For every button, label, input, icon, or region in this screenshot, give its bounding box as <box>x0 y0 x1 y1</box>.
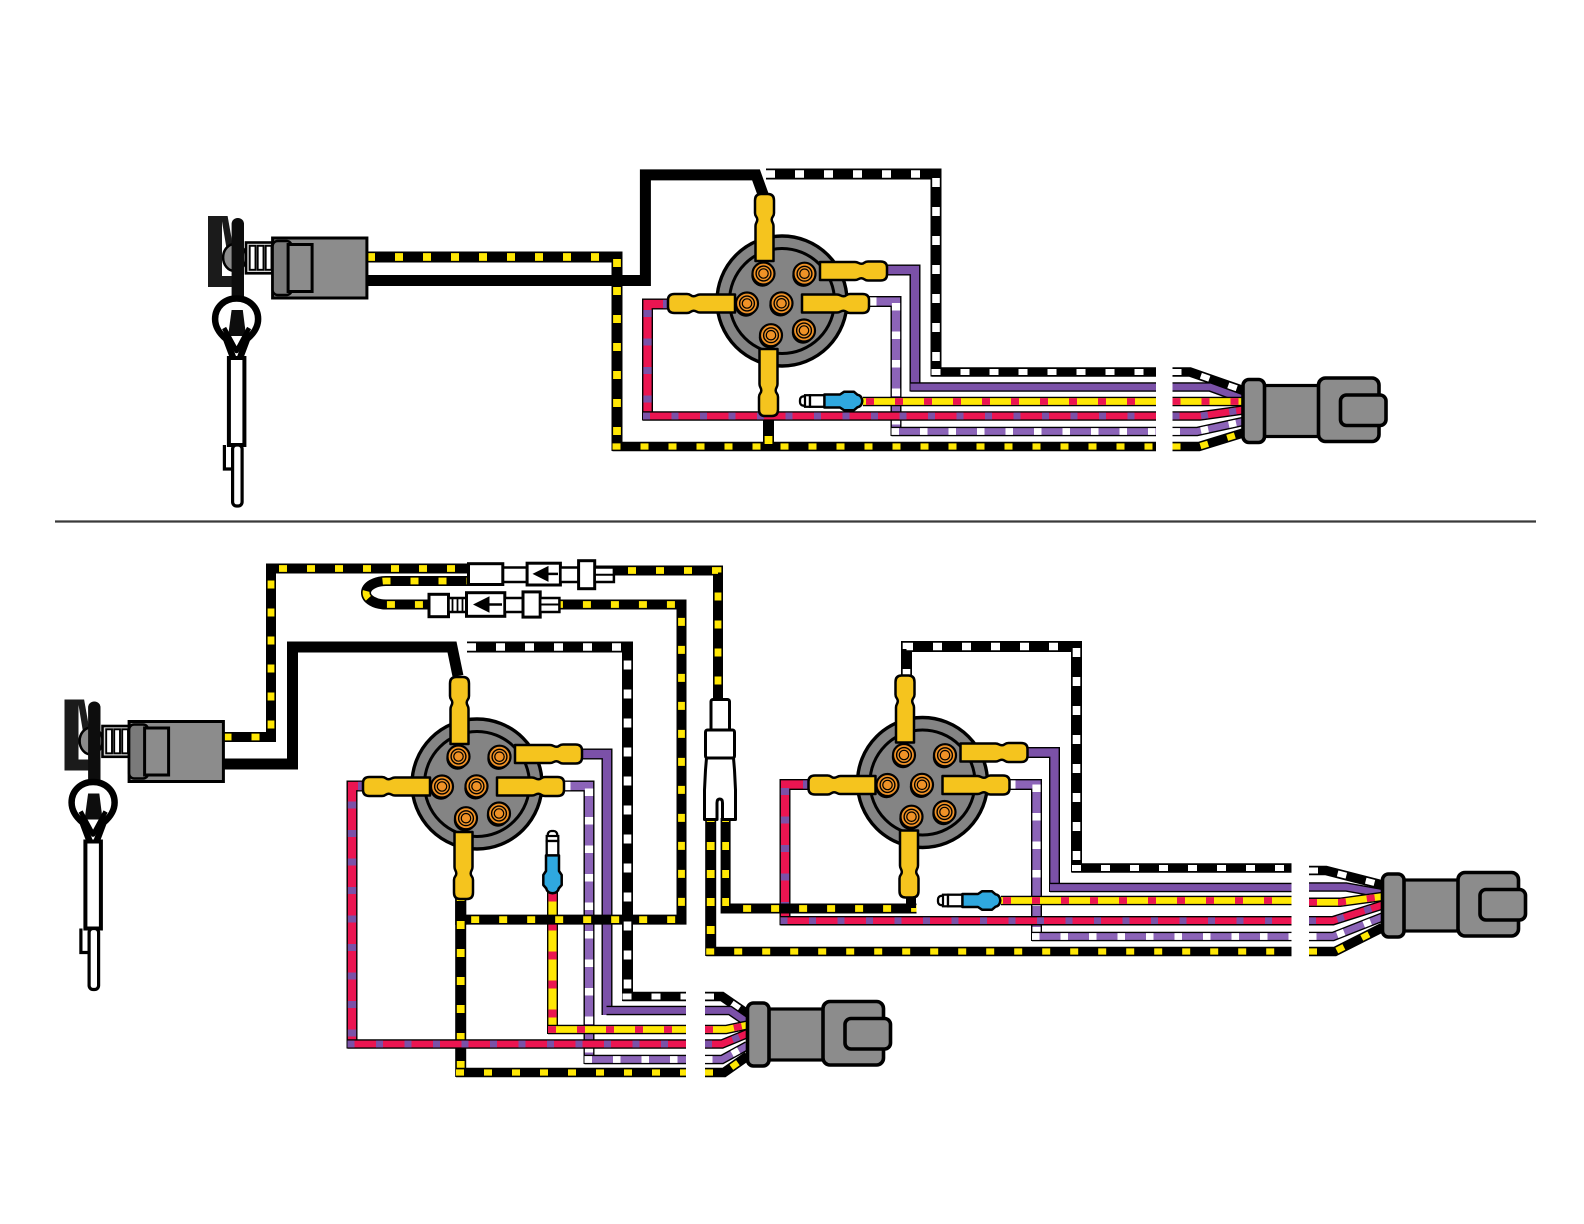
switch B center contact <box>464 775 487 799</box>
switch A top-right contact <box>792 263 815 287</box>
harness connector plug P2 (lower harness) <box>748 1002 891 1067</box>
wire: yellow/red fan into plug P1 <box>1173 397 1244 407</box>
wire: yellow/red fan into plug P3 <box>1309 897 1383 903</box>
wire: black/yellow stub, switch C bottom terminal <box>906 891 916 908</box>
wire: black/yellow from Y connector left leg <box>705 818 716 956</box>
switch A left spade terminal <box>668 294 735 313</box>
wire: purple, switch C upper-right (vertical leg) <box>1026 753 1055 893</box>
wire: black/yellow stub, switch B bottom terminal <box>455 894 466 925</box>
ribbed strain relief <box>246 243 273 274</box>
wire: red/purple fan into plug P1 <box>1173 410 1244 416</box>
wire: purple fan into plug P2 <box>705 1011 748 1023</box>
switch A upper-right spade terminal <box>820 262 887 281</box>
inline fuse F3 (switch C circuit) <box>938 891 1000 909</box>
switch B top-right contact <box>487 746 510 770</box>
inline fuse F1 (top diagram) <box>800 392 862 410</box>
bullet splice connector pair 2 <box>429 592 559 617</box>
switch B mid-left contact <box>430 776 453 800</box>
wire: red/purple row (lower harness) <box>348 1039 687 1049</box>
lanyard stop-switch key assembly (bottom diagram, key switch 2) <box>65 700 224 990</box>
wire: black/white run to lower harness <box>623 992 687 1002</box>
switch A center contact <box>769 292 792 316</box>
switch C bottom-left contact <box>899 806 922 830</box>
switch C mid-left contact <box>875 774 898 798</box>
wire: black/yellow from bullet splice 1 to Y connector <box>578 571 718 701</box>
bullet splice connector pair 1 <box>469 561 614 589</box>
wire: purple fan into plug P1 <box>1173 387 1244 399</box>
switch A bottom-right contact <box>792 320 815 344</box>
switch B left spade terminal <box>363 777 430 796</box>
switch B bottom-right contact <box>487 803 510 827</box>
Y splitter connector <box>705 700 736 820</box>
inline fuse F2 (switch B circuit, vertical) <box>543 831 561 893</box>
switch B bottom spade terminal <box>454 832 473 899</box>
wire: yellow/red row (right harness) <box>1001 896 1292 906</box>
switch C top-right contact <box>933 744 956 768</box>
switch C top-left contact <box>892 744 915 768</box>
ignition switch B: body <box>412 719 542 849</box>
lanyard cord <box>229 358 245 445</box>
wire: purple row (top harness) <box>911 382 1157 392</box>
switch B top spade terminal <box>450 677 469 744</box>
switch A bottom spade terminal <box>759 349 778 416</box>
key switch connector body <box>273 238 367 298</box>
wire: black/white fan into plug P1 <box>1173 372 1244 391</box>
switch B mid-right spade terminal <box>497 777 564 796</box>
switch C bottom-right contact <box>932 801 955 825</box>
wire: purple/white row (lower harness) <box>585 1055 687 1065</box>
wire: black/yellow fan into plug P3 <box>1309 928 1383 952</box>
switch C upper-right spade terminal <box>961 743 1028 762</box>
ribbed strain relief <box>103 726 130 757</box>
switch C top spade terminal <box>896 676 915 743</box>
switch A top spade terminal <box>755 194 774 261</box>
wire: black/white from switch A top (over and down) <box>766 174 936 377</box>
grommet <box>80 728 103 755</box>
wire: red/purple, switch C left terminal (vertical leg) <box>785 785 810 926</box>
wire: yellow/red fan into plug P2 <box>705 1025 748 1030</box>
wire: black/yellow fan into plug P2 <box>705 1056 748 1073</box>
wire: black/yellow from key switch 1 (down leg) <box>367 257 617 451</box>
key clip bracket <box>208 216 222 287</box>
harness connector plug P1 (top harness) <box>1243 378 1386 443</box>
wire: yellow/red row (lower harness) <box>548 1025 686 1035</box>
wire: black from key switch 1 to switch A top <box>367 175 764 281</box>
wire: black/yellow fan into plug P1 <box>1173 433 1244 447</box>
wire: purple row (lower harness) <box>607 1006 687 1016</box>
lanyard cord <box>85 842 101 929</box>
wire: yellow/red from fuse F2 (vertical leg) <box>547 886 558 1034</box>
wire: black/white fan into plug P2 <box>705 997 748 1015</box>
wire: purple/white, switch A mid-right (vertical leg) <box>869 302 896 437</box>
wire: red/purple, switch A left terminal (vertical leg) <box>648 304 671 421</box>
switch C mid-right spade terminal <box>943 776 1010 795</box>
wire: purple/white row (top harness) <box>892 427 1157 437</box>
lanyard stop-switch key assembly (top diagram, key switch 1) <box>208 216 367 506</box>
wire: black/yellow stub, switch A bottom terminal <box>763 412 774 447</box>
wire: black/yellow run to right harness <box>706 947 1291 957</box>
wire: red/purple fan into plug P3 <box>1309 905 1383 921</box>
wire: purple, switch A upper-right to harness (vertical leg) <box>887 270 915 392</box>
wire: black/yellow bottom run to harness (top diagram) <box>613 442 1157 452</box>
wire: red/purple row (top harness) <box>643 411 1156 421</box>
wire: red/purple fan into plug P2 <box>705 1034 748 1045</box>
stop switch key <box>232 218 244 314</box>
switch C left spade terminal <box>809 776 876 795</box>
wire: purple/white fan into plug P1 <box>1173 422 1244 432</box>
switch A top-left contact <box>751 263 774 287</box>
wire: black/white from switch B top (over and down) <box>467 647 628 1001</box>
key switch connector body <box>129 722 223 782</box>
wire: purple/white fan into plug P3 <box>1309 917 1383 937</box>
wire: black/yellow from Y connector right leg to switch C bottom <box>726 818 917 909</box>
section divider <box>55 520 1536 522</box>
wire: black/yellow bottom run to lower harness <box>456 1068 686 1078</box>
lanyard loop <box>215 299 258 363</box>
ignition switch C: body <box>858 718 988 848</box>
key clip bracket <box>65 700 79 771</box>
wire: purple/white, switch B mid-right (vertical leg) <box>563 786 589 1064</box>
wire: red/purple row (right harness) <box>781 916 1292 926</box>
harness connector plug P3 (right harness) <box>1383 873 1526 938</box>
switch B top-left contact <box>446 746 469 770</box>
wire: black/white fan into plug P3 <box>1309 871 1383 886</box>
wire: purple fan into plug P3 <box>1309 887 1383 894</box>
switch A bottom-left contact <box>759 324 782 348</box>
wire: purple, switch B upper-right (vertical leg) <box>581 754 607 1015</box>
lanyard loop <box>72 782 115 846</box>
wire: purple row (right harness) <box>1050 883 1292 893</box>
wire: black/white run to harness (top diagram) <box>932 367 1157 377</box>
switch A mid-left contact <box>735 293 758 317</box>
wire: black from key switch 2 to switch B top <box>224 647 459 764</box>
switch B bottom-left contact <box>454 807 477 831</box>
wire: purple/white fan into plug P2 <box>705 1046 748 1060</box>
wire: black/white from switch C top (over and down) <box>907 647 1077 873</box>
grommet <box>223 244 246 271</box>
wire: purple/white, switch C mid-right (vertical leg) <box>1008 785 1037 942</box>
wire: black/yellow loop through bullet splice 2 to switch B bottom <box>366 581 681 920</box>
wire: red/purple, switch B left terminal (vertical leg) <box>352 786 365 1049</box>
switch C center contact <box>910 774 933 798</box>
switch B upper-right spade terminal <box>515 745 582 764</box>
switch A mid-right spade terminal <box>802 294 869 313</box>
wire: purple/white row (right harness) <box>1032 932 1292 942</box>
wire: black/white run to right harness <box>1072 863 1292 873</box>
ignition switch A: body <box>717 236 847 366</box>
wire: black/yellow left leg down from switch B bottom <box>455 895 466 1077</box>
wire: yellow/red row (top harness) <box>863 397 1156 407</box>
switch C bottom spade terminal <box>900 831 919 898</box>
wire: black/yellow from key switch 2 to bullet splice 1 <box>224 569 504 738</box>
stop switch key <box>88 702 100 798</box>
